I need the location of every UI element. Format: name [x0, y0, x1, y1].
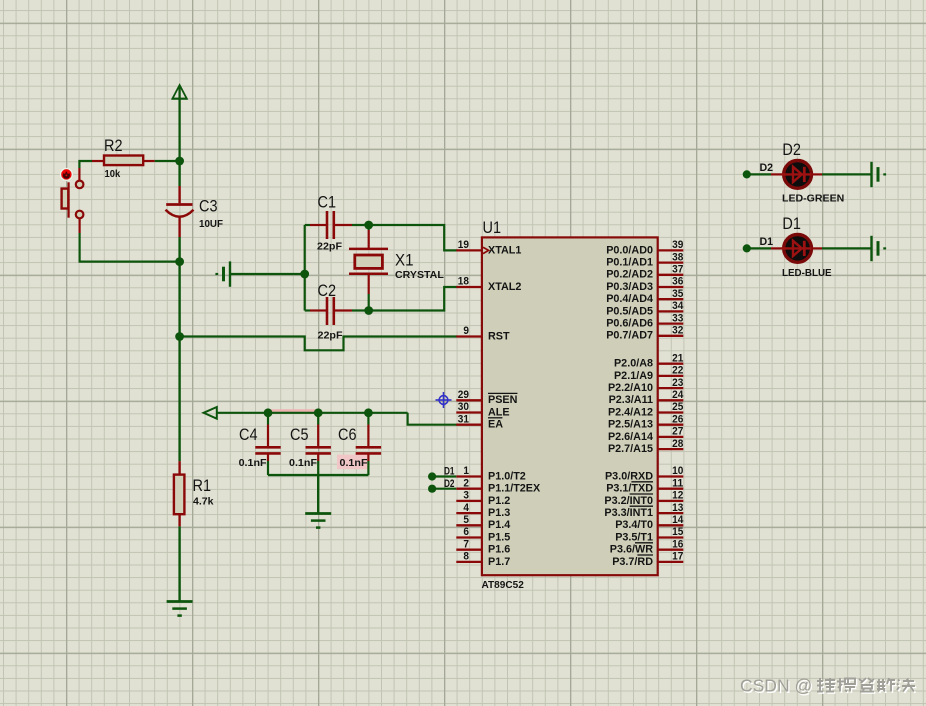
svg-text:D2: D2	[760, 162, 774, 174]
svg-text:C2: C2	[318, 282, 337, 300]
svg-text:3: 3	[463, 490, 469, 502]
svg-text:P1.4: P1.4	[488, 519, 510, 531]
svg-text:1: 1	[463, 465, 469, 477]
svg-text:22: 22	[672, 365, 683, 377]
svg-text:P3.0/RXD: P3.0/RXD	[605, 470, 653, 482]
svg-text:21: 21	[672, 352, 683, 364]
svg-text:17: 17	[672, 551, 683, 563]
svg-text:P3.6/WR: P3.6/WR	[610, 544, 653, 556]
svg-text:XTAL1: XTAL1	[488, 244, 521, 256]
svg-text:16: 16	[672, 538, 683, 550]
svg-text:PSEN: PSEN	[488, 394, 518, 406]
svg-text:P0.7/AD7: P0.7/AD7	[606, 330, 653, 342]
svg-text:CSDN @: CSDN @	[740, 676, 812, 696]
svg-text:P2.0/A8: P2.0/A8	[614, 358, 653, 370]
svg-text:C1: C1	[318, 194, 337, 212]
svg-text:C6: C6	[338, 426, 357, 444]
svg-text:24: 24	[672, 389, 683, 401]
svg-text:P0.1/AD1: P0.1/AD1	[606, 257, 653, 269]
svg-text:D2: D2	[444, 478, 455, 490]
svg-text:P1.1/T2EX: P1.1/T2EX	[488, 483, 541, 495]
svg-text:10k: 10k	[105, 168, 121, 180]
svg-text:22pF: 22pF	[318, 329, 344, 341]
svg-text:P0.3/AD3: P0.3/AD3	[606, 281, 653, 293]
svg-text:LED-BLUE: LED-BLUE	[782, 267, 832, 279]
svg-text:P3.7/RD: P3.7/RD	[612, 556, 653, 568]
svg-text:CRYSTAL: CRYSTAL	[395, 269, 444, 281]
svg-text:15: 15	[672, 526, 683, 538]
svg-text:P2.4/A12: P2.4/A12	[608, 406, 653, 418]
svg-text:11: 11	[672, 477, 683, 489]
svg-text:13: 13	[672, 502, 683, 514]
svg-text:23: 23	[672, 377, 683, 389]
svg-text:37: 37	[672, 264, 683, 276]
svg-text:P0.5/AD5: P0.5/AD5	[606, 305, 653, 317]
svg-text:EA: EA	[488, 419, 503, 431]
svg-text:D2: D2	[782, 141, 801, 159]
svg-text:D1: D1	[760, 236, 774, 248]
svg-text:RST: RST	[488, 330, 510, 342]
svg-text:LED-GREEN: LED-GREEN	[782, 193, 844, 205]
svg-text:12: 12	[672, 490, 683, 502]
svg-text:27: 27	[672, 426, 683, 438]
svg-text:0.1nF: 0.1nF	[239, 457, 268, 469]
svg-text:C3: C3	[199, 198, 218, 216]
svg-text:0.1nF: 0.1nF	[340, 457, 369, 469]
svg-text:X1: X1	[395, 252, 414, 270]
svg-text:P0.2/AD2: P0.2/AD2	[606, 269, 653, 281]
svg-text:P1.7: P1.7	[488, 556, 510, 568]
svg-text:26: 26	[672, 413, 683, 425]
svg-text:P2.3/A11: P2.3/A11	[609, 394, 653, 406]
svg-text:U1: U1	[483, 219, 502, 237]
svg-text:P2.1/A9: P2.1/A9	[614, 370, 653, 382]
svg-text:5: 5	[463, 514, 469, 526]
svg-text:8: 8	[463, 551, 469, 563]
svg-text:29: 29	[458, 389, 469, 401]
svg-text:P3.5/T1: P3.5/T1	[615, 531, 653, 543]
svg-text:19: 19	[458, 239, 469, 251]
svg-text:28: 28	[672, 438, 683, 450]
svg-text:P3.1/TXD: P3.1/TXD	[606, 483, 653, 495]
svg-text:D1: D1	[782, 215, 801, 233]
svg-text:22pF: 22pF	[317, 240, 343, 252]
svg-text:P2.5/A13: P2.5/A13	[608, 419, 653, 431]
svg-text:4.7k: 4.7k	[193, 496, 214, 508]
svg-text:P1.6: P1.6	[488, 544, 510, 556]
svg-text:ALE: ALE	[488, 406, 510, 418]
svg-text:D1: D1	[444, 466, 455, 478]
svg-text:35: 35	[672, 288, 683, 300]
svg-text:P0.6/AD6: P0.6/AD6	[606, 318, 653, 330]
svg-text:10UF: 10UF	[199, 218, 224, 230]
svg-text:R1: R1	[193, 477, 212, 495]
svg-text:P1.0/T2: P1.0/T2	[488, 470, 526, 482]
svg-text:38: 38	[672, 251, 683, 263]
svg-text:2: 2	[463, 477, 469, 489]
svg-text:34: 34	[672, 300, 683, 312]
svg-text:25: 25	[672, 401, 683, 413]
svg-text:XTAL2: XTAL2	[488, 281, 521, 293]
svg-text:14: 14	[672, 514, 683, 526]
svg-text:6: 6	[463, 526, 469, 538]
svg-text:36: 36	[672, 276, 683, 288]
svg-text:39: 39	[672, 239, 683, 251]
svg-text:C4: C4	[239, 426, 258, 444]
svg-text:9: 9	[463, 325, 469, 337]
svg-text:P2.7/A15: P2.7/A15	[608, 443, 653, 455]
svg-text:P2.2/A10: P2.2/A10	[608, 382, 653, 394]
svg-text:18: 18	[458, 276, 469, 288]
svg-text:33: 33	[672, 312, 683, 324]
svg-text:P1.3: P1.3	[488, 507, 510, 519]
svg-text:0.1nF: 0.1nF	[289, 457, 318, 469]
svg-text:7: 7	[463, 538, 469, 550]
svg-text:P0.0/AD0: P0.0/AD0	[606, 244, 653, 256]
svg-text:P3.4/T0: P3.4/T0	[615, 519, 653, 531]
svg-text:P3.2/INT0: P3.2/INT0	[604, 495, 653, 507]
svg-text:R2: R2	[104, 137, 123, 155]
svg-text:P3.3/INT1: P3.3/INT1	[604, 507, 653, 519]
svg-text:P0.4/AD4: P0.4/AD4	[606, 293, 653, 305]
svg-text:P1.5: P1.5	[488, 531, 510, 543]
svg-text:31: 31	[458, 413, 469, 425]
svg-text:C5: C5	[290, 426, 309, 444]
svg-text:32: 32	[672, 325, 683, 337]
svg-text:P2.6/A14: P2.6/A14	[608, 431, 653, 443]
svg-text:P1.2: P1.2	[488, 495, 510, 507]
svg-text:AT89C52: AT89C52	[482, 579, 524, 591]
svg-text:30: 30	[458, 401, 469, 413]
svg-text:10: 10	[672, 465, 683, 477]
svg-text:4: 4	[463, 502, 469, 514]
